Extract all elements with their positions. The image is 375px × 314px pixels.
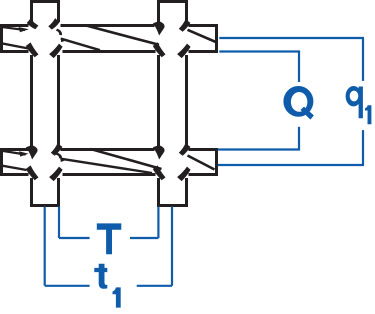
pin/bar left: bottom cap [30,204,60,207]
top plate: left end edge [0,24,3,53]
top plate: diagonal left upper [0,27,25,30]
bottom plate: left end edge [0,148,3,176]
dim q1 vertical line upper [362,38,364,81]
top plate: diagonal mid upper [87,26,159,45]
bottom plate: diagonal left upper [0,151,26,155]
dim t1 horizontal left segment [45,285,90,287]
label t1 [94,264,107,289]
bottom plate: diagonal mid lower [61,159,152,173]
break mark left-bar/top-plate bottom-right [49,44,63,59]
bottom plate: diagonal mid upper [91,149,162,169]
break mark left-bar/top-plate bottom-left [26,42,39,57]
dim T left vertical [58,207,60,239]
bottom plate: bottom edge segments [0,173,29,176]
dim t1 right vertical [171,207,173,286]
flare at end of bottom plate upper diagonal [19,151,29,156]
top plate: top edge segments [0,24,29,27]
bottom plate: diagonal left lower [0,165,27,170]
bottom plate: diagonal right [188,156,215,170]
flare at start of bottom plate mid lower diagonal [60,158,68,162]
label q1 [346,86,363,118]
dim Q bottom extension line [218,148,300,150]
break mark right-bar/bottom-plate bottom-left [153,165,166,180]
top plate: bottom edge segments [0,50,29,53]
top plate: diagonal left lower [0,43,31,49]
top plate: right end edge [215,24,218,53]
dim t1 horizontal right segment [137,285,172,287]
break mark left-bar/bottom-plate bottom-left [26,165,39,180]
dim q1 bottom extension line [218,164,364,166]
dim T horizontal right segment [130,237,158,239]
pin/bar left: right edge [57,2,60,23]
break mark right-bar/top-plate bottom-right [177,44,191,59]
break mark right-bar/bottom-plate top-left [153,145,165,159]
flare at end of top plate upper diagonal [19,27,29,32]
top plate: diagonal right [188,30,216,42]
bottom plate: top edge segments [0,148,29,151]
break mark right-bar/top-plate top-right [179,19,191,32]
dim T right vertical [157,207,159,239]
label T [97,223,122,254]
break mark left-bar/top-plate top-left [27,18,39,29]
bottom plate: right end edge [215,148,218,176]
pin/bar left: top cap [30,0,60,3]
label Q [283,86,313,117]
break mark left-bar/bottom-plate top-right [51,143,63,156]
break mark right-bar/top-plate top-left [153,21,165,35]
break mark left-bar/top-plate top-right [48,18,59,30]
dim Q top extension line [219,50,300,52]
dim q1 top extension line [219,37,364,39]
pin/bar right: right edge [185,2,188,23]
dim Q vertical line lower [298,127,300,150]
break mark right-bar/bottom-plate bottom-right [177,167,191,182]
pin/bar right: left edge [157,2,160,23]
dim q1 vertical line lower [362,130,364,165]
connector claw-tail to mid lower diagonal, bottom plate [56,153,62,159]
dim Q vertical line upper [298,52,300,83]
dim T horizontal left segment [59,237,90,239]
break mark right-bar/top-plate bottom-left [153,42,166,57]
connector claw-tail to mid lower diagonal, top plate [56,29,62,36]
break mark left-bar/bottom-plate top-left [26,145,38,159]
break mark right-bar/bottom-plate top-right [179,143,191,156]
top plate: diagonal mid lower [61,39,100,51]
pin/bar right: bottom cap [157,204,188,207]
dim t1 left vertical [44,207,46,286]
pin/bar left: left edge [30,2,33,23]
pin/bar right: top cap [157,0,188,3]
flare at start of top plate mid lower diagonal [61,38,69,43]
break mark left-bar/bottom-plate bottom-right [49,167,63,182]
